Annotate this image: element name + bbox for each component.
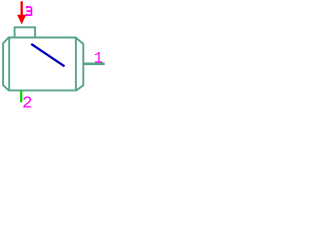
svg-text:2: 2 xyxy=(22,94,33,113)
svg-text:1: 1 xyxy=(94,50,103,68)
